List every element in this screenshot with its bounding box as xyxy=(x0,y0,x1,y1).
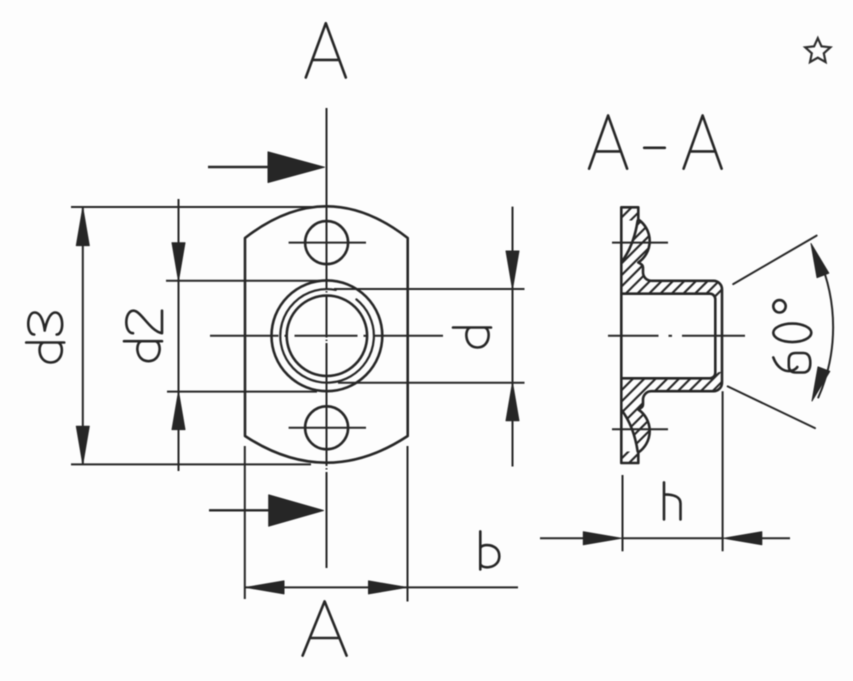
angle 60 deg arc top arrow xyxy=(811,244,829,278)
section horizontal centreline xyxy=(608,335,745,337)
front view bottom hole horizontal centreline xyxy=(289,427,366,429)
dimension d2 bottom arrow (outside pointing up) xyxy=(172,392,185,430)
star icon (favourite, top right) xyxy=(805,38,830,62)
dimension label d3 xyxy=(26,313,64,363)
dimension d3 bottom arrow xyxy=(76,426,89,464)
dimension b line xyxy=(245,586,518,588)
angle 60 deg upper leg xyxy=(733,236,816,285)
dimension d bottom extension line xyxy=(338,382,525,384)
dimension h right extension line xyxy=(722,391,724,551)
front view flange outline (obround plate) xyxy=(245,206,408,462)
front view top hole horizontal centreline xyxy=(289,242,366,244)
section title letter A (left) xyxy=(589,116,627,169)
dimension d3 top arrow xyxy=(76,208,89,246)
angle label 60 deg xyxy=(773,300,811,372)
dimension d bottom arrow (outside pointing up) xyxy=(506,383,519,421)
section title letter A (right) xyxy=(684,116,722,169)
section arrow bottom (view direction) xyxy=(209,495,324,526)
section title dash xyxy=(644,147,665,150)
dimension b left extension line xyxy=(244,446,246,599)
dimension d2 top arrow (outside pointing down) xyxy=(172,243,185,281)
section bore outline xyxy=(621,294,715,379)
section arrow top (view direction) xyxy=(208,152,325,183)
dimension d3 bottom extension line xyxy=(71,463,311,465)
dimension d3 line xyxy=(82,208,84,465)
dimension d2 bottom extension line xyxy=(167,391,317,393)
section label letter A (top) xyxy=(306,23,346,77)
front view horizontal centreline xyxy=(210,335,443,337)
dimension b right arrow xyxy=(369,581,407,594)
dimension label d xyxy=(453,328,491,348)
dimension d top extension line xyxy=(334,288,525,290)
dimension d3 top extension line xyxy=(71,206,315,208)
front view threaded bore circle xyxy=(287,296,367,376)
dimension h right arrow (pointing left) xyxy=(724,532,762,545)
dimension d line xyxy=(512,207,514,467)
front view bottom prong hole xyxy=(305,406,348,449)
dimension d2 line xyxy=(178,199,180,471)
dimension h dimension line xyxy=(621,537,724,539)
dimension h left arrow (pointing right) xyxy=(583,532,621,545)
dimension label h xyxy=(664,482,681,519)
front view thread major-diameter arc (3/4 circle) xyxy=(280,289,374,383)
front view collar outer circle xyxy=(272,280,383,391)
dimension h left extension line xyxy=(622,475,624,551)
angle 60 deg lower leg xyxy=(728,386,815,428)
front view vertical centreline / section line A-A xyxy=(326,108,328,568)
dimension b left arrow xyxy=(246,581,284,594)
dimension d2 top extension line xyxy=(166,280,320,282)
dimension label d2 xyxy=(124,311,162,362)
dimension h right tail xyxy=(761,537,790,539)
dimension label b xyxy=(480,531,499,569)
section bottom hole inner curl arc xyxy=(622,410,638,452)
section top hole inner curl arc xyxy=(622,221,638,263)
front view top prong hole xyxy=(305,221,348,264)
section label letter A (bottom) xyxy=(303,601,347,655)
angle 60 deg arc bottom arrow xyxy=(812,367,830,401)
section top hole centreline xyxy=(612,242,668,244)
dimension h left tail xyxy=(540,537,585,539)
dimension b right extension line xyxy=(407,446,409,602)
section outer outline xyxy=(621,207,722,463)
section bottom hole centreline xyxy=(612,428,668,430)
dimension d top arrow (outside pointing down) xyxy=(506,251,519,289)
angle 60 deg arc xyxy=(818,257,833,397)
